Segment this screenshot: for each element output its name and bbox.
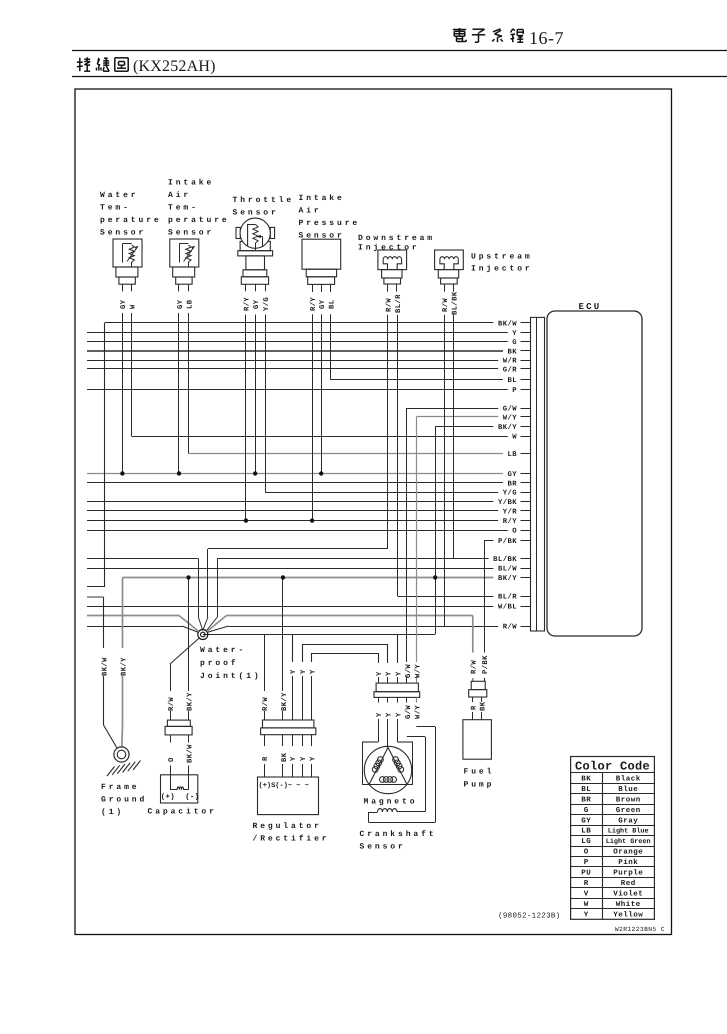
joint fan wires up bbox=[198, 549, 217, 632]
fuel pump label bbox=[464, 768, 495, 790]
svg-text:Brown: Brown bbox=[616, 796, 641, 804]
wire intake-temp GY lead bbox=[178, 313, 180, 474]
svg-text:Color Code: Color Code bbox=[575, 760, 650, 774]
svg-text:R/W: R/W bbox=[441, 298, 450, 312]
svg-text:BL: BL bbox=[328, 300, 336, 309]
svg-text:BL: BL bbox=[581, 786, 591, 794]
wire BK/Y to frame ground bbox=[121, 578, 124, 748]
svg-text:BK: BK bbox=[281, 752, 289, 762]
svg-text:Purple: Purple bbox=[613, 869, 643, 878]
magneto Y pin stubs above connector bbox=[379, 660, 398, 683]
magneto Y pin wires into box bbox=[379, 719, 398, 748]
joint to capacitor R/W diagonal bbox=[170, 638, 200, 665]
svg-text:P: P bbox=[584, 859, 589, 867]
svg-text:BL/BK: BL/BK bbox=[451, 291, 460, 315]
svg-text:W/BL: W/BL bbox=[498, 603, 517, 612]
downstream injector label bbox=[358, 234, 435, 253]
svg-text:W: W bbox=[584, 901, 589, 909]
svg-text:Upstream: Upstream bbox=[471, 253, 533, 262]
svg-text:BL/BK: BL/BK bbox=[493, 555, 517, 564]
fuel pump connector bbox=[469, 681, 487, 719]
svg-text:Intake: Intake bbox=[299, 194, 345, 203]
water temperature sensor bbox=[113, 239, 142, 291]
svg-text:Y: Y bbox=[309, 756, 317, 761]
svg-text:G: G bbox=[584, 806, 589, 815]
svg-text:R/Y: R/Y bbox=[309, 297, 318, 311]
svg-text:W/R: W/R bbox=[503, 357, 518, 366]
svg-text:(-): (-) bbox=[185, 793, 199, 802]
wire throttle Y/G lead bbox=[265, 315, 267, 493]
svg-text:Y: Y bbox=[300, 756, 308, 761]
svg-text:(1): (1) bbox=[101, 808, 124, 817]
junction dots BK/Y row bbox=[186, 575, 190, 579]
svg-text:R/W: R/W bbox=[167, 697, 176, 711]
svg-text:BK: BK bbox=[507, 349, 517, 357]
svg-text:G: G bbox=[512, 339, 517, 347]
svg-text:BK/W: BK/W bbox=[185, 744, 194, 763]
wire P/BK row y=540.4 bbox=[484, 540, 531, 542]
svg-text:GY: GY bbox=[507, 471, 517, 479]
wire water-temp W lead bbox=[131, 313, 133, 436]
wire frame-ground BK/W left stub y=597 bbox=[87, 596, 104, 598]
wire downstream-injector R/W link y=549 bbox=[208, 548, 388, 550]
water temperature sensor label bbox=[100, 191, 162, 238]
svg-text:Black: Black bbox=[616, 774, 641, 783]
wire G/R row y=369 bbox=[87, 368, 531, 370]
svg-text:White: White bbox=[616, 900, 641, 909]
upstream injector label bbox=[471, 253, 533, 274]
wire G/W vertical to magneto connector bbox=[406, 408, 408, 683]
svg-text:R/Y: R/Y bbox=[503, 517, 518, 526]
wire Y/BK row y=501.5 bbox=[87, 501, 531, 503]
svg-text:Air: Air bbox=[299, 207, 322, 216]
svg-text:Light Blue: Light Blue bbox=[608, 828, 649, 836]
wire upstream BL/BK lead bbox=[453, 315, 455, 559]
svg-text:Air: Air bbox=[168, 191, 191, 200]
wire W/Y vertical to magneto connector bbox=[416, 417, 418, 683]
svg-text:Y/G: Y/G bbox=[503, 489, 517, 498]
svg-text:O: O bbox=[584, 848, 589, 857]
wire BL/R row y=596 bbox=[398, 596, 531, 598]
svg-text:LB: LB bbox=[507, 451, 517, 459]
svg-text:BL/R: BL/R bbox=[498, 593, 517, 602]
svg-text:Regulator: Regulator bbox=[253, 822, 322, 831]
svg-text:Y: Y bbox=[309, 669, 317, 674]
downstream injector bbox=[378, 250, 407, 292]
svg-text:PU: PU bbox=[581, 870, 591, 878]
svg-text:Water-: Water- bbox=[200, 646, 246, 655]
wire upstream R/W lead bbox=[444, 315, 446, 626]
upstream injector bbox=[435, 250, 464, 292]
svg-text:Ground: Ground bbox=[101, 796, 147, 805]
joint left diagonals bbox=[179, 616, 199, 633]
wire Y/G row y=492 bbox=[265, 492, 530, 494]
svg-text:W/Y: W/Y bbox=[413, 664, 422, 678]
svg-text:Pump: Pump bbox=[464, 781, 495, 790]
svg-text:G/R: G/R bbox=[503, 366, 518, 375]
svg-text:Throttle: Throttle bbox=[233, 196, 295, 205]
wires regulator Y stubs above connector bbox=[293, 660, 312, 720]
fuel pump box bbox=[463, 720, 492, 760]
svg-text:R/W: R/W bbox=[261, 697, 270, 711]
wire magneto Y outer loop y=634 bbox=[293, 635, 398, 661]
svg-text:R: R bbox=[584, 880, 589, 888]
joint right diagonals bbox=[207, 616, 229, 633]
svg-text:W: W bbox=[512, 434, 517, 442]
frame ground symbol bbox=[107, 747, 141, 776]
wire BK/W vertical to ECU row bbox=[104, 323, 106, 587]
svg-text:Y: Y bbox=[386, 712, 394, 717]
wire magneto Y inner loop y=653.5 bbox=[312, 654, 379, 661]
svg-text:R/W: R/W bbox=[470, 660, 479, 674]
ECU connector bbox=[531, 317, 545, 631]
wire downstream BL/R lead bbox=[397, 315, 399, 596]
wire fuel-pump R/W gray row y=615.5 bbox=[87, 615, 473, 617]
svg-text:Y: Y bbox=[290, 756, 298, 761]
svg-text:BK/Y: BK/Y bbox=[185, 692, 194, 711]
svg-text:GY: GY bbox=[253, 299, 261, 309]
svg-text:O: O bbox=[512, 528, 517, 536]
svg-text:Joint(1): Joint(1) bbox=[200, 672, 262, 681]
svg-text:G/W: G/W bbox=[503, 405, 518, 414]
svg-text:Y: Y bbox=[300, 669, 308, 674]
svg-text:BK/Y: BK/Y bbox=[498, 574, 517, 583]
header rule bottom bbox=[72, 76, 727, 78]
svg-text:Downstream: Downstream bbox=[358, 234, 435, 243]
svg-text:BL/R: BL/R bbox=[394, 294, 403, 313]
regulator label bbox=[253, 822, 330, 844]
svg-text:Red: Red bbox=[621, 879, 636, 888]
svg-text:Orange: Orange bbox=[613, 848, 643, 857]
svg-text:16-7: 16-7 bbox=[529, 28, 564, 48]
svg-text:Y: Y bbox=[512, 330, 517, 338]
svg-text:BK: BK bbox=[581, 775, 591, 783]
svg-text:Magneto: Magneto bbox=[364, 798, 418, 807]
capacitor connector bbox=[165, 720, 192, 775]
wire BK/W left stub y=587 bbox=[87, 586, 105, 588]
svg-text:perature: perature bbox=[100, 216, 162, 225]
svg-text:Fuel: Fuel bbox=[464, 768, 495, 777]
waterproof joint (1) bbox=[198, 630, 208, 640]
svg-text:R/W: R/W bbox=[503, 623, 518, 632]
ECU box bbox=[547, 311, 642, 636]
svg-text:R: R bbox=[262, 756, 270, 761]
svg-text:Blue: Blue bbox=[618, 785, 638, 794]
magneto connector bbox=[374, 683, 420, 702]
header rule top bbox=[72, 50, 727, 52]
svg-text:Y: Y bbox=[290, 669, 298, 674]
wire pressure R/Y lead bbox=[312, 314, 314, 520]
svg-text:BK/Y: BK/Y bbox=[498, 423, 517, 432]
wire BL/W row y=568 bbox=[87, 568, 531, 570]
svg-text:(+): (+) bbox=[161, 793, 175, 802]
magneto body bbox=[362, 742, 413, 794]
wire downstream R/W lead bbox=[387, 315, 389, 549]
magneto coils bbox=[372, 757, 403, 783]
wire magneto Y middle loop y=644 bbox=[303, 645, 388, 661]
svg-text:BL: BL bbox=[507, 377, 517, 385]
svg-text:W: W bbox=[129, 304, 137, 309]
intake air pressure sensor bbox=[302, 239, 341, 292]
svg-text:LG: LG bbox=[581, 837, 591, 846]
svg-text:BK/Y: BK/Y bbox=[119, 657, 128, 676]
waterproof joint label bbox=[200, 646, 262, 681]
svg-text:Y: Y bbox=[386, 671, 394, 676]
intake air temperature sensor bbox=[170, 239, 199, 291]
wire P/BK to fuel pump bbox=[484, 540, 486, 681]
wire Y row y=332.5 bbox=[87, 332, 531, 334]
svg-text:/Rectifier: /Rectifier bbox=[253, 835, 330, 844]
svg-text:Injector: Injector bbox=[358, 244, 420, 253]
wire BL row y=379.5 bbox=[331, 379, 531, 381]
svg-text:R/W: R/W bbox=[385, 298, 394, 312]
svg-text:Y/BK: Y/BK bbox=[498, 498, 517, 507]
svg-text:Sensor: Sensor bbox=[360, 843, 406, 852]
wire BK/W to frame ground bbox=[104, 597, 118, 748]
svg-text:Y/R: Y/R bbox=[503, 508, 518, 517]
wire capacitor BK/Y lead bbox=[188, 578, 190, 721]
svg-text:Light Green: Light Green bbox=[606, 838, 651, 846]
svg-text:Sensor: Sensor bbox=[168, 229, 214, 238]
svg-text:BR: BR bbox=[507, 481, 517, 489]
svg-text:P/BK: P/BK bbox=[481, 655, 490, 674]
svg-text:(98052-1223B): (98052-1223B) bbox=[498, 912, 560, 921]
svg-text:Pressure: Pressure bbox=[299, 219, 361, 228]
wire W/BL row y=606 bbox=[87, 606, 531, 608]
wire BR row y=483 bbox=[87, 482, 531, 484]
wire G/W row y=408 bbox=[407, 408, 531, 410]
svg-text:GY: GY bbox=[120, 299, 128, 309]
throttle sensor label bbox=[233, 196, 295, 218]
svg-text:Tem-: Tem- bbox=[100, 204, 131, 213]
diagram border frame bbox=[75, 89, 672, 935]
svg-text:GY: GY bbox=[319, 299, 327, 309]
wire pressure GY lead bbox=[321, 314, 323, 473]
svg-text:BK: BK bbox=[480, 701, 488, 711]
svg-text:Y/G: Y/G bbox=[262, 297, 271, 311]
svg-text:BK/Y: BK/Y bbox=[280, 692, 289, 711]
color code table bbox=[571, 757, 655, 920]
wire BL/BK row y=558.5 bbox=[87, 558, 531, 560]
svg-text:Violet: Violet bbox=[613, 890, 643, 899]
wire pressure BL lead bbox=[330, 314, 332, 379]
svg-text:BK/W: BK/W bbox=[498, 320, 517, 329]
svg-text:Y: Y bbox=[376, 712, 384, 717]
svg-text:Y: Y bbox=[376, 671, 384, 676]
svg-text:Tem-: Tem- bbox=[168, 204, 199, 213]
svg-text:GY: GY bbox=[177, 299, 185, 309]
wire G row y=341.5 bbox=[87, 341, 531, 343]
wire R/W row y=626 bbox=[87, 626, 531, 628]
svg-text:G/W: G/W bbox=[404, 664, 413, 678]
svg-text:Yellow: Yellow bbox=[613, 911, 643, 920]
throttle sensor bbox=[236, 218, 275, 291]
svg-text:P: P bbox=[512, 387, 517, 395]
frame ground label bbox=[101, 783, 147, 817]
svg-text:Sensor: Sensor bbox=[233, 209, 279, 218]
svg-text:W/Y: W/Y bbox=[503, 414, 518, 423]
wire W/Y row y=417 bbox=[416, 416, 530, 418]
svg-text:Frame: Frame bbox=[101, 783, 140, 792]
svg-text:R: R bbox=[471, 705, 479, 710]
wire throttle GY lead bbox=[255, 315, 257, 474]
wire LB row y=453.5 bbox=[189, 453, 531, 455]
svg-text:W2R1223BN5 C: W2R1223BN5 C bbox=[615, 926, 665, 933]
svg-text:Y: Y bbox=[396, 671, 404, 676]
svg-text:perature: perature bbox=[168, 216, 230, 225]
junction dots R/Y row bbox=[244, 518, 248, 522]
svg-text:BL/W: BL/W bbox=[498, 565, 517, 574]
wire BK/Y row y=426.5 bbox=[435, 426, 530, 428]
wire W/R row y=360 bbox=[87, 360, 531, 362]
wire GY row y=473.5 bbox=[87, 473, 531, 475]
svg-text:G/W: G/W bbox=[404, 705, 413, 719]
regulator connector bbox=[261, 720, 316, 777]
junction dots GY row bbox=[120, 471, 124, 475]
wire BK/Y row y=577.5 bbox=[123, 577, 531, 579]
svg-text:Pink: Pink bbox=[618, 858, 638, 867]
svg-text:LB: LB bbox=[186, 299, 194, 309]
wire W row y=436 bbox=[132, 436, 531, 438]
svg-text:Gray: Gray bbox=[618, 816, 638, 825]
wire capacitor R/W lead bbox=[170, 664, 172, 720]
svg-text:Sensor: Sensor bbox=[100, 229, 146, 238]
svg-text:BR: BR bbox=[581, 796, 591, 804]
svg-text:BK/W: BK/W bbox=[100, 657, 109, 676]
wire BK/W row y=323 bbox=[105, 322, 531, 324]
wire BK/Y branch from ECU row 427 bbox=[435, 427, 437, 635]
svg-text:proof: proof bbox=[200, 659, 239, 668]
svg-text:LB: LB bbox=[581, 828, 591, 836]
wire water-temp GY lead bbox=[122, 313, 124, 474]
crankshaft sensor label bbox=[360, 830, 437, 852]
svg-text:R/Y: R/Y bbox=[243, 297, 252, 311]
wire P row y=389.5 bbox=[87, 389, 531, 391]
svg-text:Green: Green bbox=[616, 806, 641, 815]
wire R/Y row y=520.6 bbox=[87, 520, 531, 522]
wire regulator BK/Y drop bbox=[282, 578, 284, 721]
svg-text:Intake: Intake bbox=[168, 179, 214, 188]
wire BK row y=351 bbox=[87, 350, 531, 353]
svg-text:P/BK: P/BK bbox=[498, 537, 517, 546]
svg-text:(KX252AH): (KX252AH) bbox=[133, 58, 216, 75]
wire regulator R/W drop from joint ray bbox=[264, 634, 266, 720]
svg-text:Crankshaft: Crankshaft bbox=[360, 830, 437, 839]
wire fuel pump R/W drop bbox=[472, 616, 474, 682]
intake air pressure sensor label bbox=[299, 194, 361, 241]
svg-text:Injector: Injector bbox=[471, 265, 533, 274]
capacitor C bbox=[161, 775, 200, 803]
svg-text:O: O bbox=[168, 757, 176, 762]
svg-text:Capacitor: Capacitor bbox=[148, 808, 217, 817]
wire throttle R/Y lead bbox=[245, 315, 247, 521]
svg-text:GY: GY bbox=[581, 816, 591, 825]
wire Y/R row y=511 bbox=[87, 510, 531, 512]
svg-text:V: V bbox=[584, 891, 589, 899]
wire intake-temp LB lead bbox=[188, 313, 190, 454]
svg-text:W/Y: W/Y bbox=[413, 705, 422, 719]
svg-text:Y: Y bbox=[584, 912, 589, 920]
wire joint ray to x=435 y=634 bbox=[203, 634, 435, 636]
svg-text:Water: Water bbox=[100, 191, 139, 200]
wire O row y=530 bbox=[87, 530, 531, 532]
svg-text:(+)S(-)~ ~ ~: (+)S(-)~ ~ ~ bbox=[259, 781, 309, 790]
subtitle 接線圖 (KX252AH) bbox=[77, 57, 90, 71]
crankshaft sensor coil bbox=[369, 727, 436, 823]
header title 電子系統 16-7 bbox=[453, 28, 466, 42]
regulator/rectifier box bbox=[258, 777, 319, 815]
svg-text:Y: Y bbox=[396, 712, 404, 717]
intake air temperature sensor label bbox=[168, 179, 230, 238]
